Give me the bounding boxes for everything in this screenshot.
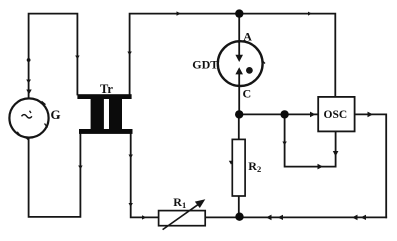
svg-text:GDT: GDT — [192, 57, 218, 71]
tick on bottom wire before R1 — [142, 215, 147, 219]
gas discharge tube GDT envelope — [218, 41, 263, 86]
transformer Tr left winding — [91, 99, 104, 130]
wire OSC right then down right side — [355, 114, 387, 217]
arrow on OSC right wire — [368, 112, 374, 118]
GDT gas dot — [246, 67, 253, 74]
wire secondary top: transformer up, across top, down to OSC top — [130, 14, 336, 97]
wire R2 bottom lead — [238, 196, 240, 217]
wire primary loop bottom: G bottom down, across, up to transformer — [29, 134, 81, 217]
resistor R2 body — [232, 139, 245, 196]
wire secondary bottom: transformer down then right along bottom — [131, 134, 387, 217]
generator sine symbol — [22, 115, 32, 118]
sketch tick on GDT circle right — [262, 61, 265, 64]
svg-text:Tr: Tr — [100, 82, 113, 96]
tick on x=284 vertical — [282, 142, 286, 146]
tick on left vertical (blob) — [27, 58, 31, 62]
tick on R2 left edge — [229, 161, 233, 165]
resistor R1 body — [159, 211, 206, 226]
transformer Tr right winding — [109, 99, 122, 130]
tick on x=77 vertical — [75, 56, 79, 60]
transformer Tr top plate — [77, 94, 131, 99]
wire primary loop top: G top up, across, down to transformer — [29, 14, 78, 99]
node junction dot GDT cathode — [235, 110, 243, 118]
oscilloscope OSC box — [318, 97, 354, 131]
arrow on OSC bottom vertical — [333, 151, 339, 157]
tick on x=80 vertical lower — [78, 166, 82, 170]
generator G1 circle — [9, 98, 48, 137]
tick on top wire right — [308, 12, 312, 16]
tick chevron left vertical — [26, 80, 31, 84]
svg-text:A: A — [243, 30, 252, 44]
tick arrow above G — [26, 90, 31, 95]
svg-text:G: G — [51, 107, 61, 122]
R1 variable arrow — [163, 204, 199, 229]
tick on x=130 vertical lower — [129, 203, 133, 207]
wire GDT anode drop — [238, 14, 240, 42]
node junction dot on top wire — [235, 9, 243, 17]
wire node to OSC left — [239, 113, 318, 115]
arrow on U loop bottom — [318, 164, 324, 170]
arrow into OSC left — [310, 112, 316, 118]
sketch ticks on G circle — [17, 101, 47, 140]
wire tick marks — [26, 11, 373, 220]
arrow on bottom wire right a — [266, 215, 272, 221]
svg-text:C: C — [243, 87, 252, 101]
stray mark after G — [57, 116, 59, 118]
wire OSC bottom U loop back to node — [285, 114, 336, 166]
node junction dot R2 bottom — [235, 213, 243, 221]
node junction dot OSC loop — [280, 110, 288, 118]
arrow on bottom wire right d — [361, 215, 367, 220]
tick on top wire — [177, 11, 182, 15]
GDT top electrode (arrow down) — [238, 42, 240, 56]
transformer Tr bottom plate — [79, 129, 133, 134]
svg-text:OSC: OSC — [324, 109, 348, 121]
GDT bottom electrode (arrow up) — [238, 74, 240, 86]
tick on x=130 vertical upper — [129, 155, 133, 159]
arrow on bottom wire right c — [278, 215, 284, 220]
arrow on bottom wire right b — [352, 215, 358, 221]
wire GDT cathode drop to node — [238, 86, 240, 115]
wire R2 top lead — [238, 114, 240, 139]
tick on x=129 vertical — [127, 52, 131, 56]
